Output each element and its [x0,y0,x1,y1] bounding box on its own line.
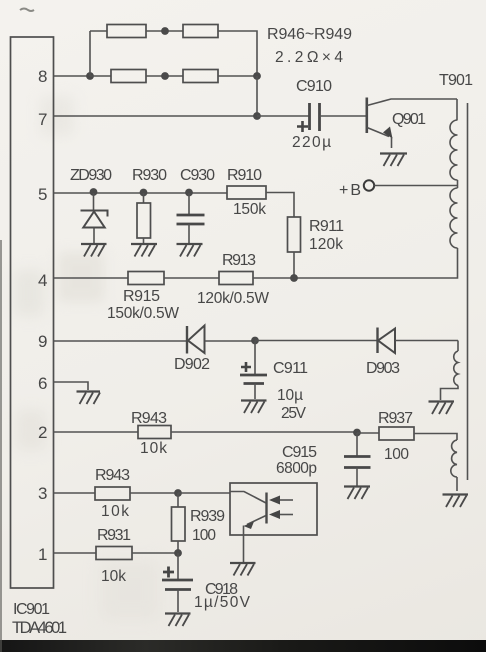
zener diode ZD930 [81,193,108,243]
pin 7 [38,110,47,129]
svg-text:10k: 10k [140,440,167,457]
diode D902 [187,326,205,354]
svg-text:10k: 10k [101,503,129,520]
wire opto emitter lead [243,535,245,562]
TDA4601 label [12,619,67,637]
resistor R943a [138,426,171,439]
resistor R913 [219,272,253,285]
wire right riser to pin7 row [256,76,258,116]
svg-text:D903: D903 [366,360,400,377]
transformer T901 primary winding upper coil [450,120,457,180]
wire pin7 row [54,115,258,117]
svg-text:R913: R913 [222,252,256,269]
wire top row seg2 [146,30,183,32]
resistor R930 [137,193,151,243]
wire R937 to winding [414,434,457,441]
svg-text:10k: 10k [101,568,126,585]
svg-text:9: 9 [38,332,47,351]
svg-text:R910: R910 [227,167,262,184]
25V value label [281,405,307,422]
svg-text:6: 6 [38,374,47,393]
transformer core [467,103,469,480]
resistor R947 [183,25,218,38]
wire pin1 row seg2 [132,552,178,554]
resistor R911 [288,217,301,278]
svg-text:R931: R931 [97,527,131,544]
svg-text:C910: C910 [296,78,332,95]
wire bottom row seg2 [146,75,183,77]
svg-text:2.2Ω×4: 2.2Ω×4 [275,49,343,66]
R910 label [227,167,262,184]
2.2 ohm x4 value label [275,49,343,66]
120k value label [309,236,343,253]
wire network left riser [89,31,91,76]
svg-text:120k: 120k [309,236,343,253]
node R930 junction [140,189,148,197]
T901 label [439,72,473,89]
transformer T901 primary winding lower coil [450,180,457,248]
optocoupler light arrow 2 [269,510,293,519]
ZD930 label [70,167,112,184]
pin 6 [38,374,47,393]
pin 4 [38,271,47,290]
node network right junction [253,72,261,80]
wire pin6 stub [54,382,89,390]
R937 label [378,410,413,427]
D902 label [174,356,210,373]
pin 3 [38,484,47,503]
node C915 junction [353,429,361,437]
ground pin6 [77,392,101,405]
wire pin2 row seg3 [357,432,379,434]
capacitor C918 [162,553,193,612]
IC U901 body [11,37,54,588]
wire pin7 to C910 [257,115,309,117]
capacitor C915 [344,433,371,486]
ground Q901 emitter [380,154,407,167]
resistor R948 [111,70,146,83]
R915 label [123,288,160,305]
svg-text:6800p: 6800p [276,460,317,477]
wire pin5 row [54,192,228,194]
150k value label [233,201,266,218]
svg-text:R937: R937 [378,410,413,427]
svg-text:C930: C930 [180,167,215,184]
optocoupler light arrow 1 [269,496,293,505]
wire pin9 row seg1 [54,340,187,342]
wire pin4 row seg2 [164,277,219,279]
ground C930 [177,244,203,257]
svg-text:25V: 25V [281,405,307,422]
ground secondary lower [443,495,469,508]
ground optocoupler [230,563,256,576]
R913 label [222,252,256,269]
wire pin3 row seg3 [178,492,230,494]
pin 8 [38,67,47,86]
capacitor C910 [297,103,320,132]
R943a label [131,410,167,427]
wire pin3 row seg2 [130,492,178,494]
C911 label [273,360,308,377]
node R911 bottom junction [290,274,298,282]
svg-text:TDA4601: TDA4601 [12,619,67,637]
100 value label b [192,527,216,544]
resistor R939 [172,493,186,553]
pin 9 [38,332,47,351]
wire D903 to winding [395,340,458,342]
ground secondary upper [429,402,455,415]
svg-text:150k: 150k [233,201,266,218]
IC901 label [13,601,50,618]
node C918 junction [174,549,182,557]
svg-text:Q901: Q901 [392,111,426,128]
D903 label [366,360,400,377]
wire bottom row seg3 [218,75,257,77]
node bottom mid junction [161,72,169,80]
svg-text:ZD930: ZD930 [70,167,112,184]
transformer T901 secondary winding lower [451,440,457,491]
svg-text:+B: +B [339,182,361,199]
svg-text:R943: R943 [95,467,130,484]
wire top row seg3 [218,31,257,76]
node +B terminal [364,180,374,190]
10k value label b [101,503,129,520]
svg-text:8: 8 [38,67,47,86]
wire pin8 stub [54,75,91,77]
diode D903 [378,328,396,354]
resistor R910 [227,186,266,199]
svg-text:IC901: IC901 [13,601,50,618]
svg-text:R911: R911 [309,218,344,235]
ground R930 [131,244,157,257]
C915 label [282,444,317,461]
resistor R931 [96,547,132,560]
150k/0.5W value label [107,305,179,322]
resistor R943b [95,487,130,500]
10u value label [277,387,303,404]
svg-text:100: 100 [192,527,216,544]
svg-text:4: 4 [38,271,47,290]
svg-text:120k/0.5W: 120k/0.5W [197,290,269,307]
svg-text:C911: C911 [273,360,308,377]
resistor R946 [107,25,146,38]
svg-text:R915: R915 [123,288,160,305]
node C911 junction [251,337,259,345]
wire top row seg1 [90,30,107,32]
svg-text:1µ/50V: 1µ/50V [194,594,251,611]
wire pin1 row seg1 [54,552,97,554]
1u/50V value label [194,594,251,611]
svg-text:D902: D902 [174,356,210,373]
100 value label [384,446,409,463]
6800p value label [276,460,317,477]
node R939 top junction [174,489,182,497]
R911 label [309,218,344,235]
node pin7 junction [253,112,261,120]
10k value label c [101,568,126,585]
svg-text:1: 1 [38,545,47,564]
wire pin4 row seg1 [54,277,129,279]
svg-text:10µ: 10µ [277,387,303,404]
svg-text:T901: T901 [439,72,473,89]
node top mid junction [161,27,169,35]
transformer T901 primary winding top lead [456,99,458,120]
220u value label [292,134,331,151]
wire pin3 row seg1 [54,492,96,494]
capacitor C911 [240,341,267,400]
Q901 label [392,111,426,128]
+B label [339,182,361,199]
wire pin9 row seg3 [255,340,377,342]
svg-text:7: 7 [38,110,47,129]
transistor Q901 [367,98,457,149]
optocoupler phototransistor [230,492,267,536]
wire R910 to R911 [266,193,294,218]
resistor R937 [379,427,414,440]
ground ZD930 [81,244,107,257]
C918 label [205,581,238,598]
C930 label [180,167,215,184]
transformer T901 secondary winding upper [441,341,459,401]
svg-text:2: 2 [38,423,47,442]
wire bottom row seg1 [90,75,111,77]
C910 label [296,78,332,95]
resistor R915 [128,272,164,285]
pin 2 [38,423,47,442]
R946~R949 label [267,26,352,43]
scan artifacts layer [58,252,104,302]
optocoupler D901 box [230,483,317,535]
R939 label [190,508,225,525]
node pin8 junction [86,72,94,80]
svg-text:3: 3 [38,484,47,503]
capacitor C930 [177,193,205,243]
svg-text:100: 100 [384,446,409,463]
transformer T901 primary bottom lead [294,248,458,278]
ground C918 [165,614,191,627]
svg-text:R943: R943 [131,410,167,427]
svg-text:R946~R949: R946~R949 [267,26,352,43]
wire pin9 row seg2 [205,340,255,342]
pin 1 [38,545,47,564]
120k/0.5W value label [197,290,269,307]
svg-text:R930: R930 [132,167,167,184]
10k value label a [140,440,167,457]
wire pin2 row seg1 [54,431,139,433]
node C930 junction [185,189,193,197]
resistor R949 [183,70,218,83]
wire pin2 row seg2 [171,431,357,433]
R930 label [132,167,167,184]
ground C911 [241,401,267,414]
ground C915 [344,487,370,500]
R943b label [95,467,130,484]
wire +B tap [374,185,457,187]
svg-text:C915: C915 [282,444,317,461]
pin 5 [38,185,47,204]
wire C910 to Q901 base [320,115,367,117]
svg-text:220µ: 220µ [292,134,331,151]
svg-text:R939: R939 [190,508,225,525]
wire pin4 row seg3 [253,277,294,279]
R931 label [97,527,131,544]
wire stray mark top-left [20,9,34,12]
node ZD930 junction [90,188,98,196]
svg-text:5: 5 [38,185,47,204]
svg-text:150k/0.5W: 150k/0.5W [107,305,179,322]
